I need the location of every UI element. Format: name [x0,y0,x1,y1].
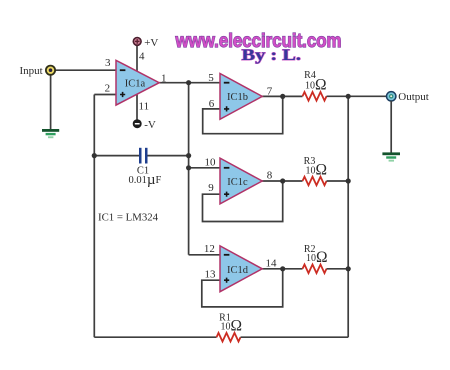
wire mid bus [188,83,190,255]
op-amp IC1d [220,246,262,292]
node C1 left junction [92,153,97,158]
resistor R1 [217,333,241,342]
svg-text:14: 14 [266,257,278,269]
svg-text:+V: +V [144,37,158,49]
wire C1 right [148,155,189,157]
node R4 output junction [346,94,351,99]
wire pin2 from left bus [94,94,116,96]
svg-text:3: 3 [105,57,111,69]
node pin10 junction [186,165,191,170]
resistor R4 [303,92,327,101]
node IC1c output junction [280,178,285,183]
node IC1a output junction [186,80,191,85]
terminal Output [387,92,396,101]
wire IC1d feedback [202,269,283,307]
svg-text:2: 2 [105,83,111,95]
svg-text:By : L.: By : L. [242,47,302,64]
terminal +V [133,38,141,46]
svg-text:5: 5 [208,72,214,84]
wire IC1b feedback [203,96,283,133]
wire right bus [347,96,349,337]
wire output ground drop [390,101,392,153]
svg-text:6: 6 [209,98,215,110]
wire pin11 to -V [136,93,138,119]
resistor R3 [303,177,327,186]
svg-text:Input: Input [19,65,42,77]
svg-text:7: 7 [267,86,273,98]
wire left bus [93,95,95,338]
node IC1d output junction [280,266,285,271]
wire IC1b output to R4 [262,95,303,97]
wire bottom left of R1 [94,336,216,338]
svg-text:IC1 = LM324: IC1 = LM324 [98,212,159,224]
wire R2 to right bus [327,268,349,270]
node IC1b output junction [280,94,285,99]
node R2 right bus junction [346,266,351,271]
svg-text:IC1c: IC1c [227,177,248,188]
ground (output) [382,152,400,161]
node R3 right bus junction [346,178,351,183]
svg-text:11: 11 [139,100,150,112]
svg-text:10: 10 [205,157,217,169]
op-amp IC1a [116,60,159,105]
svg-text:4: 4 [139,51,145,63]
wire IC1c feedback [203,181,283,222]
svg-text:0.01µF: 0.01µF [129,172,162,188]
resistor R2 [303,265,327,274]
wire pin12 from mid bus [189,254,220,256]
wire C1 left [94,155,139,157]
wire pin4 to +V [136,45,138,71]
wire bottom right of R1 [241,336,349,338]
svg-text:1: 1 [161,72,167,84]
svg-text:-V: -V [144,119,156,131]
capacitor C1 [139,148,148,164]
wire input to pin3 [55,69,116,71]
node C1 right junction [186,153,191,158]
terminal Input [46,66,55,75]
svg-text:13: 13 [205,269,217,281]
ground (input) [42,129,59,138]
svg-text:IC1d: IC1d [227,265,249,276]
svg-text:9: 9 [208,182,214,194]
svg-text:8: 8 [267,169,273,181]
wire IC1c output to R3 [262,180,303,182]
wire R3 to right bus [327,180,349,182]
svg-text:12: 12 [204,243,215,255]
svg-text:IC1b: IC1b [227,92,248,103]
op-amp IC1b [220,74,262,120]
wire R4 to output [327,95,387,97]
op-amp IC1c [220,158,262,204]
svg-text:Output: Output [398,91,429,103]
svg-text:IC1a: IC1a [125,78,146,89]
terminal -V [133,120,141,128]
wire IC1d output to R2 [262,268,303,270]
wire IC1a output to IC1b pin5 [159,82,220,84]
wire pin10 from mid bus [189,167,220,169]
wire input ground drop [50,75,52,130]
